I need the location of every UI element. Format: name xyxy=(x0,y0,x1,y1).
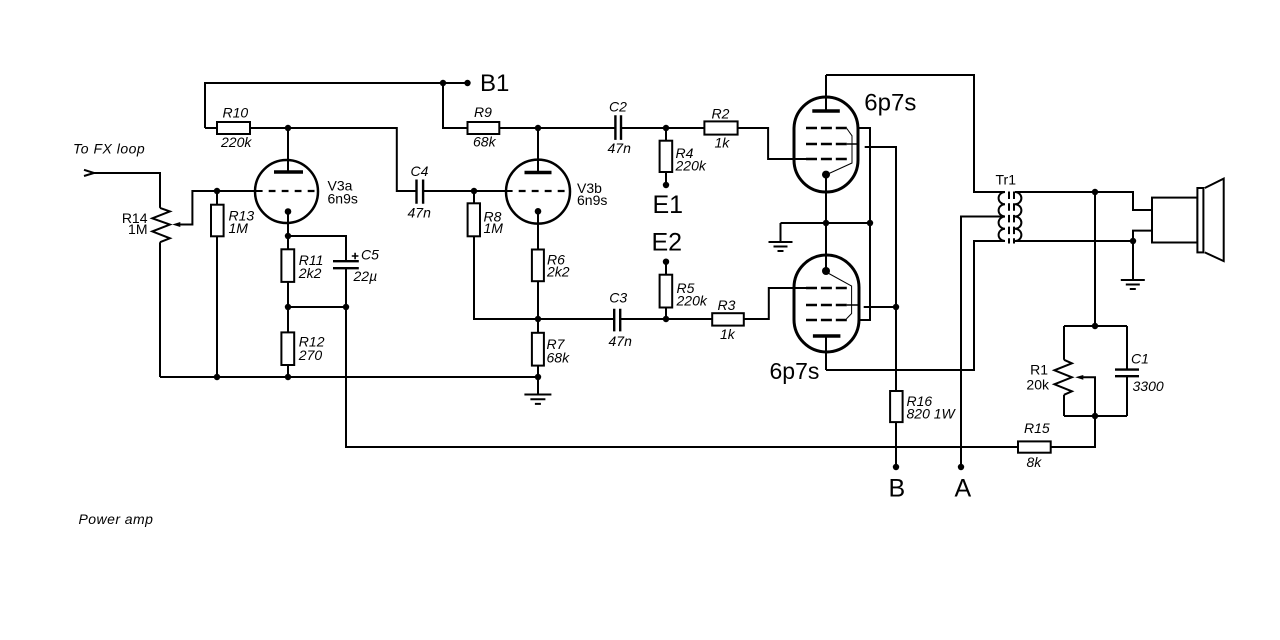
svg-text:R15: R15 xyxy=(1024,420,1050,436)
svg-text:R10: R10 xyxy=(223,105,249,121)
wire lower anode to transformer xyxy=(826,241,1005,370)
capacitor C5 xyxy=(288,236,359,307)
svg-text:C2: C2 xyxy=(609,98,627,114)
triode V3a xyxy=(255,160,318,236)
svg-text:820 1W: 820 1W xyxy=(907,405,957,421)
wire center tap to terminal A xyxy=(961,217,1005,468)
svg-text:1k: 1k xyxy=(720,326,736,342)
svg-text:R2: R2 xyxy=(712,106,730,122)
wire V3b anode lead xyxy=(537,128,539,173)
resistor R16 xyxy=(890,391,903,467)
resistor R3 xyxy=(666,288,806,326)
terminal A xyxy=(958,464,964,470)
svg-text:6p7s: 6p7s xyxy=(770,358,820,384)
svg-text:220k: 220k xyxy=(675,157,707,173)
svg-text:C3: C3 xyxy=(609,290,627,306)
wire secondary tap to R1 C1 xyxy=(1094,192,1096,326)
resistor R11 xyxy=(281,236,294,307)
resistor R12 xyxy=(281,307,294,377)
svg-text:47n: 47n xyxy=(609,333,633,349)
pentode V4 upper 6p7s xyxy=(794,75,858,223)
capacitor C3 xyxy=(538,309,666,332)
node R4 top xyxy=(663,125,669,131)
ground main xyxy=(524,377,551,404)
node R11 bottom xyxy=(285,304,291,310)
node R12 bottom xyxy=(285,374,291,380)
wire grid V3a xyxy=(217,190,263,192)
speaker xyxy=(1152,179,1224,262)
wire R14 bottom to ground bus xyxy=(159,242,161,377)
terminal E1 xyxy=(663,182,669,188)
potentiometer R14 xyxy=(152,208,170,242)
svg-text:C4: C4 xyxy=(411,163,429,179)
svg-text:2k2: 2k2 xyxy=(298,265,322,281)
svg-text:C5: C5 xyxy=(361,247,379,263)
node ground bus end xyxy=(535,374,541,380)
svg-text:220k: 220k xyxy=(220,134,252,150)
resistor R10 xyxy=(217,122,250,134)
svg-text:B: B xyxy=(889,474,906,502)
wire R1 C1 top xyxy=(1064,325,1127,327)
resistor R13 xyxy=(211,191,224,377)
wire R10 to C4 xyxy=(250,128,417,191)
svg-text:To FX loop: To FX loop xyxy=(73,141,145,157)
node secondary top tap xyxy=(1092,189,1098,195)
node V3b grid junction xyxy=(471,188,477,194)
node V3b anode xyxy=(535,125,541,131)
node upper cathode xyxy=(823,220,829,226)
svg-text:47n: 47n xyxy=(408,204,432,220)
terminal B1 xyxy=(464,80,470,86)
svg-text:3300: 3300 xyxy=(1133,378,1164,394)
wire screens to R16 xyxy=(895,307,897,391)
wire C4 to V3b grid xyxy=(423,190,512,192)
transformer Tr1 xyxy=(999,192,1022,244)
node V3b cathode junction xyxy=(535,316,541,322)
wire B1 drop to R9 xyxy=(443,83,468,128)
svg-text:68k: 68k xyxy=(547,349,571,365)
triode V3b xyxy=(506,160,570,250)
capacitor C1 xyxy=(1115,326,1139,416)
svg-text:E2: E2 xyxy=(652,229,683,257)
resistor R4 xyxy=(660,128,673,185)
wire feedback riser xyxy=(346,307,1018,447)
wire upper screen g2 xyxy=(865,147,896,307)
resistor R7 xyxy=(532,319,544,377)
wire cathode bus to lower tube xyxy=(825,223,827,271)
svg-text:8k: 8k xyxy=(1027,454,1043,470)
wire ground bus xyxy=(160,376,538,378)
wire cathode bus xyxy=(781,222,871,224)
node B1 junction xyxy=(440,80,446,86)
ground speaker xyxy=(1121,241,1145,289)
svg-text:B1: B1 xyxy=(480,70,509,97)
svg-text:R1: R1 xyxy=(1030,361,1048,377)
svg-text:6n9s: 6n9s xyxy=(328,191,358,207)
svg-text:68k: 68k xyxy=(473,133,497,149)
wire secondary bottom to speaker xyxy=(1015,231,1152,241)
svg-text:47n: 47n xyxy=(608,140,632,156)
wire R9 to V3b anode xyxy=(499,127,538,129)
capacitor C4 xyxy=(417,180,424,204)
svg-text:270: 270 xyxy=(298,347,323,363)
wire R1 C1 bottom xyxy=(1064,415,1127,417)
terminal B xyxy=(893,464,899,470)
ground cathode xyxy=(769,223,793,251)
svg-text:Tr1: Tr1 xyxy=(996,171,1017,187)
node screens junction xyxy=(893,304,899,310)
resistor R5 xyxy=(660,262,673,319)
resistor R9 xyxy=(468,122,500,134)
R1 wiper arrow xyxy=(1075,375,1095,416)
wire secondary top to speaker xyxy=(1015,192,1152,210)
wire V3a anode lead xyxy=(287,128,289,172)
R14 wiper arrow xyxy=(172,191,217,227)
potentiometer R1 xyxy=(1054,326,1072,416)
resistor R8 xyxy=(468,191,538,319)
svg-text:1M: 1M xyxy=(229,220,249,236)
node grid V3a junction xyxy=(214,188,220,194)
svg-text:20k: 20k xyxy=(1026,376,1050,392)
svg-text:C1: C1 xyxy=(1131,350,1149,366)
wire upper anode to transformer primary xyxy=(826,75,1005,192)
wire lower screen g2 xyxy=(864,306,896,308)
resistor R15 xyxy=(1018,416,1095,453)
wire cathode network xyxy=(288,306,346,308)
svg-text:6p7s: 6p7s xyxy=(864,90,916,117)
svg-text:1k: 1k xyxy=(715,135,731,151)
svg-text:Power amp: Power amp xyxy=(79,511,154,527)
wire to lower beam plates xyxy=(858,223,870,320)
svg-text:R3: R3 xyxy=(718,297,736,313)
svg-text:1M: 1M xyxy=(484,220,504,236)
svg-text:220k: 220k xyxy=(676,292,708,308)
wire upper beam plates to cathode bus xyxy=(858,128,870,223)
pentode V5 lower 6p7s xyxy=(794,255,859,370)
node R5 bottom xyxy=(663,316,669,322)
svg-text:2k2: 2k2 xyxy=(546,263,570,279)
svg-text:22µ: 22µ xyxy=(353,268,378,284)
input arrow xyxy=(84,170,94,176)
capacitor C2 xyxy=(538,115,666,140)
svg-text:E1: E1 xyxy=(653,191,684,219)
terminal E2 xyxy=(663,259,669,265)
node cathode bus right xyxy=(867,220,873,226)
svg-text:1M: 1M xyxy=(128,221,147,237)
node R1 C1 top xyxy=(1092,323,1098,329)
resistor R2 xyxy=(666,121,806,159)
resistor R6 xyxy=(532,250,544,320)
wire input to R14 xyxy=(94,173,160,208)
svg-text:A: A xyxy=(955,474,972,502)
node C5 bottom xyxy=(343,304,349,310)
node V3a cathode junction xyxy=(285,233,291,239)
wire B+ rail to B1 xyxy=(205,83,468,128)
node R13 bottom xyxy=(214,374,220,380)
node V3a anode xyxy=(285,125,291,131)
svg-text:6n9s: 6n9s xyxy=(577,192,607,208)
svg-text:R9: R9 xyxy=(474,104,492,120)
node R1 C1 bottom xyxy=(1092,413,1098,419)
node secondary bottom xyxy=(1130,238,1136,244)
